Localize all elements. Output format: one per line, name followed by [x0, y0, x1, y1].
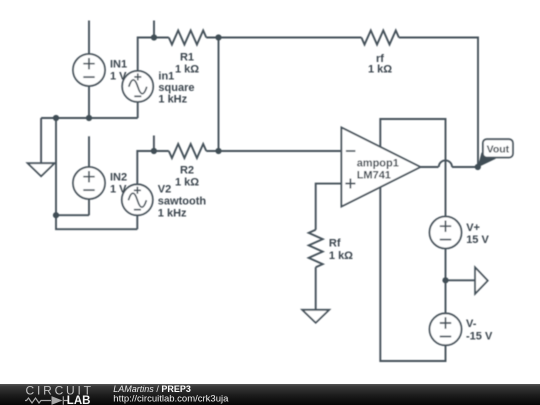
junction IN2 bottom — [53, 212, 59, 218]
signal source V2 — [122, 184, 153, 215]
wire IN1 top stub — [88, 21, 90, 55]
svg-text:1 kHz: 1 kHz — [158, 93, 187, 105]
svg-text:IN2: IN2 — [110, 172, 127, 184]
wire IN2 bottom — [56, 199, 89, 215]
V- plus sign — [440, 317, 451, 328]
junction output node — [475, 164, 481, 170]
junction IN1 bottom — [86, 115, 92, 121]
wire R1 right to rf left — [206, 37, 361, 39]
svg-text:Vout: Vout — [487, 143, 510, 155]
wire op-amp V+ pin to V+ source — [380, 119, 445, 217]
V+ plus sign — [440, 221, 451, 232]
svg-text:1 kΩ: 1 kΩ — [175, 63, 199, 75]
svg-text:ampop1: ampop1 — [357, 157, 399, 169]
V2 sine symbol — [128, 193, 146, 207]
svg-text:1 kΩ: 1 kΩ — [368, 63, 392, 75]
wire V2 bottom stub — [136, 215, 138, 229]
junction ground branch — [53, 115, 59, 121]
voltage source IN2 — [73, 167, 105, 199]
svg-text:V2: V2 — [158, 183, 171, 195]
svg-text:LAB: LAB — [67, 395, 91, 405]
voltage source V- — [430, 313, 462, 345]
voltage source V+ — [430, 217, 462, 249]
wire ground bus — [41, 117, 138, 119]
wire V- top — [445, 280, 447, 313]
resistor rf — [361, 31, 399, 45]
IN1 plus sign — [83, 58, 94, 69]
wire in1 top to R1 left — [138, 38, 169, 71]
common node arrow — [475, 267, 488, 293]
junction node A (R1 left) — [151, 34, 157, 40]
svg-text:V+: V+ — [466, 222, 480, 234]
resistor Rf — [309, 230, 323, 268]
svg-text:LM741: LM741 — [357, 169, 391, 181]
logo wire squiggle and diode — [25, 396, 68, 404]
svg-text:-15 V: -15 V — [466, 331, 493, 343]
in1 small plus — [134, 73, 141, 80]
resistor R2 — [169, 144, 207, 158]
svg-text:in1: in1 — [158, 70, 174, 82]
V2 small plus — [134, 187, 141, 194]
junction summing node bottom — [215, 148, 221, 154]
junction summing node top — [215, 34, 221, 40]
node Vout flag — [478, 139, 513, 167]
svg-text:square: square — [158, 82, 194, 94]
wire stub above node B — [153, 136, 155, 152]
wire dangling stub above node A — [153, 21, 155, 38]
V2 small minus — [134, 209, 141, 211]
wire left branch to V2 bottom — [56, 118, 137, 229]
resistor R1 — [169, 31, 207, 45]
signal source in1 — [122, 71, 153, 102]
svg-text:1 V: 1 V — [110, 184, 127, 196]
wire V2 top to R2 left — [137, 151, 169, 184]
wire rf right down to output node — [399, 38, 478, 168]
IN2 plus sign — [83, 171, 94, 182]
V+ minus sign — [440, 239, 451, 241]
svg-text:IN1: IN1 — [110, 59, 127, 71]
wire Rf bottom to ground — [315, 267, 317, 310]
footer bar — [0, 384, 540, 405]
svg-text:LAMartins / PREP3: LAMartins / PREP3 — [113, 384, 191, 394]
svg-text:sawtooth: sawtooth — [158, 196, 207, 208]
ground below Rf — [302, 310, 329, 323]
in1 small minus — [134, 95, 141, 97]
svg-text:1 V: 1 V — [110, 71, 127, 83]
voltage source IN1 — [73, 54, 105, 86]
wire R2 right to op-amp inverting input — [206, 150, 341, 152]
svg-text:1 kΩ: 1 kΩ — [329, 250, 353, 262]
op-amp minus input symbol — [346, 150, 356, 152]
svg-text:R2: R2 — [180, 165, 194, 177]
IN2 minus sign — [83, 189, 94, 191]
svg-text:1 kHz: 1 kHz — [158, 207, 187, 219]
op-amp U1 ampop1 — [341, 127, 420, 206]
IN1 minus sign — [83, 76, 94, 78]
svg-text:V-: V- — [466, 318, 477, 330]
wire op-amp output with hop — [420, 160, 477, 167]
op-amp plus input symbol — [345, 179, 355, 189]
in1 sine symbol — [129, 80, 147, 94]
junction supply common — [442, 277, 448, 283]
wire common node to arrow — [446, 279, 476, 281]
junction node B (R2 left) — [151, 148, 157, 154]
wire op-amp V- pin to V- source — [380, 187, 445, 361]
wire summing node vertical — [218, 38, 220, 152]
V- minus sign — [440, 336, 451, 338]
wire op-amp non-inverting input to Rf — [316, 184, 342, 230]
wire V+ bottom — [445, 249, 447, 280]
svg-text:R1: R1 — [180, 51, 194, 63]
wire in1 bottom stub — [137, 102, 139, 118]
svg-text:1 kΩ: 1 kΩ — [175, 177, 199, 189]
ground left — [28, 163, 55, 176]
wire IN2 top stub — [88, 136, 90, 167]
wire IN1 bottom — [88, 86, 90, 118]
svg-text:Rf: Rf — [329, 237, 341, 249]
wire ground stem left — [40, 118, 42, 163]
svg-text:http://circuitlab.com/crk3uja: http://circuitlab.com/crk3uja — [113, 394, 229, 405]
svg-text:15 V: 15 V — [466, 234, 489, 246]
